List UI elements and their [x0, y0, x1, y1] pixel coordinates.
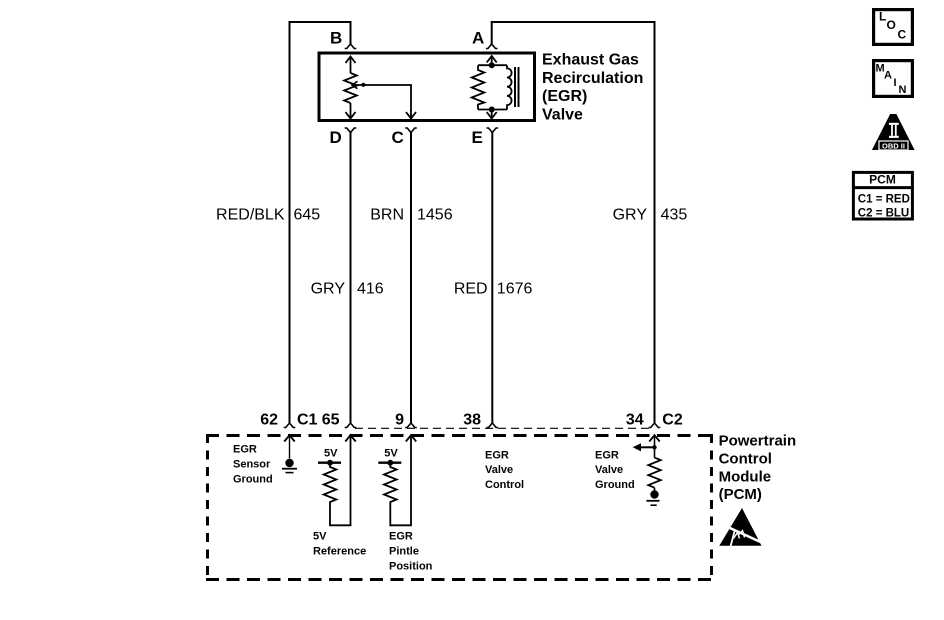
svg-text:5V: 5V	[384, 448, 398, 460]
svg-text:Position: Position	[389, 561, 433, 573]
svg-text:(PCM): (PCM)	[719, 486, 762, 503]
svg-text:Powertrain: Powertrain	[719, 433, 797, 450]
svg-text:BRN: BRN	[370, 207, 404, 224]
svg-text:Ground: Ground	[595, 479, 635, 491]
svg-text:EGR: EGR	[485, 450, 509, 462]
svg-text:Control: Control	[485, 479, 524, 491]
svg-text:Module: Module	[719, 468, 772, 485]
svg-text:L: L	[879, 10, 886, 24]
svg-text:Sensor: Sensor	[233, 459, 271, 471]
svg-text:B: B	[330, 29, 342, 48]
svg-text:34: 34	[626, 411, 644, 428]
svg-text:EGR: EGR	[389, 531, 413, 543]
svg-text:416: 416	[357, 281, 384, 298]
svg-text:N: N	[899, 84, 907, 96]
svg-text:Valve: Valve	[542, 106, 583, 123]
svg-text:Valve: Valve	[595, 464, 623, 476]
svg-text:RED: RED	[454, 281, 488, 298]
svg-text:C2 = BLU: C2 = BLU	[858, 208, 909, 220]
svg-text:Pintle: Pintle	[389, 546, 419, 558]
svg-text:C1 = RED: C1 = RED	[858, 193, 910, 205]
svg-text:C: C	[392, 128, 404, 147]
svg-text:D: D	[330, 128, 342, 147]
svg-text:E: E	[472, 128, 483, 147]
svg-text:A: A	[472, 29, 484, 48]
svg-text:PCM: PCM	[869, 173, 896, 187]
svg-text:Exhaust Gas: Exhaust Gas	[542, 52, 639, 69]
svg-text:62: 62	[260, 411, 278, 428]
svg-text:Control: Control	[719, 450, 772, 467]
svg-text:C1: C1	[297, 411, 318, 428]
svg-text:645: 645	[294, 207, 321, 224]
svg-text:I: I	[894, 77, 897, 89]
svg-text:A: A	[884, 70, 892, 82]
svg-text:1456: 1456	[417, 207, 453, 224]
svg-text:435: 435	[661, 207, 688, 224]
svg-text:1676: 1676	[497, 281, 533, 298]
svg-text:GRY: GRY	[613, 207, 648, 224]
svg-text:Recirculation: Recirculation	[542, 70, 643, 87]
svg-text:9: 9	[395, 411, 404, 428]
svg-text:Ground: Ground	[233, 474, 273, 486]
svg-text:O: O	[887, 18, 896, 32]
svg-text:EGR: EGR	[595, 450, 619, 462]
svg-text:5V: 5V	[313, 531, 327, 543]
svg-text:C: C	[898, 28, 907, 42]
svg-text:Reference: Reference	[313, 546, 366, 558]
svg-text:C2: C2	[662, 411, 683, 428]
svg-text:Valve: Valve	[485, 464, 513, 476]
svg-text:RED/BLK: RED/BLK	[216, 207, 285, 224]
svg-text:OBD II: OBD II	[882, 141, 905, 150]
svg-text:(EGR): (EGR)	[542, 88, 587, 105]
svg-text:GRY: GRY	[311, 281, 346, 298]
svg-text:5V: 5V	[324, 448, 338, 460]
svg-text:38: 38	[463, 411, 481, 428]
svg-text:65: 65	[322, 411, 340, 428]
svg-text:EGR: EGR	[233, 444, 257, 456]
